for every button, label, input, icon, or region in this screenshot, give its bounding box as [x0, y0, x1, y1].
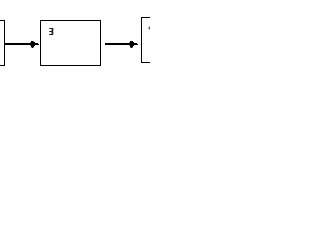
arrowhead 2: [129, 41, 138, 48]
node box 3: [41, 21, 101, 66]
node box 2 (left, cut off at left edge): [0, 21, 5, 66]
background: [0, 0, 150, 75]
label 3: [49, 28, 53, 35]
label 4: [149, 26, 150, 29]
arrowhead 1: [30, 41, 39, 48]
wire arrow 2 shaft: [105, 43, 131, 45]
wire arrow 1 shaft: [5, 43, 32, 45]
node box 4 (right, cut off at right edge): [142, 18, 172, 63]
